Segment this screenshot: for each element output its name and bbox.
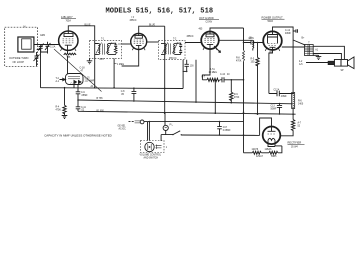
volume control shaft [145,142,154,151]
AC plug [140,120,144,124]
svg-text:52: 52 [298,126,301,128]
svg-text:470K: 470K [236,60,242,62]
T1 trimmer caps [114,43,117,49]
svg-text:C17: C17 [223,127,228,129]
svg-text:SP: SP [341,70,345,72]
svg-text:1 MEG: 1 MEG [117,64,124,66]
V4 plate box [268,35,278,44]
svg-text:CAPACITY IN MMF UNLESS OTHERWI: CAPACITY IN MMF UNLESS OTHERWISE NOTED [44,134,112,138]
svg-text:GE-951: GE-951 [118,125,127,127]
wire T1 bottom column to rail A [113,58,115,87]
svg-text:12B-12K7: 12B-12K7 [61,15,73,19]
svg-text:470K: 470K [234,97,240,99]
svg-text:M: M [24,27,26,29]
svg-text:MODELS 515, 516, 517, 518: MODELS 515, 516, 517, 518 [106,8,214,16]
V2 cathode [136,45,142,49]
V1 grids dashed [63,39,75,43]
heater string [244,152,253,154]
svg-text:BLUE: BLUE [85,24,91,26]
wire V2 top rail down [164,26,166,113]
svg-text:C-11: C-11 [81,107,87,109]
svg-text:1400: 1400 [298,103,304,105]
svg-text:R-6: R-6 [298,100,302,102]
svg-text:CONV: CONV [206,21,213,23]
V3 cathode down to R-7 [202,49,210,80]
wire B+ diagonal to transformer [293,40,305,45]
V5 cathode dashes [268,133,276,135]
wire diode box bottom to rail A [73,85,75,88]
V2 pin stubs [132,47,145,50]
svg-text:1: 1 [166,147,168,149]
svg-text:B1 650: B1 650 [97,110,105,112]
svg-text:A1: A1 [315,49,319,52]
svg-text:C-15: C-15 [85,78,91,80]
svg-text:40MF: 40MF [281,96,287,98]
loop antenna dashed enclosure [5,27,38,66]
heater wire to V5 [268,143,282,153]
resistor R-7 10 MEG horizontal [207,78,220,81]
wire loop to grid [34,44,59,46]
V1 plate [64,34,73,37]
svg-text:C-2A: C-2A [50,46,56,49]
svg-text:R-9: R-9 [234,94,238,96]
V2 plate top wire BLUE [139,26,165,33]
tube V1 12K7 IF amplifier [59,31,78,50]
V3 pin stubs [203,47,217,50]
svg-text:P L: P L [170,125,174,127]
oscillator coil right of V3 [219,39,247,41]
wire cathode column down [67,56,69,74]
resistor R-9 470K vertical [230,80,232,92]
svg-text:GRN: GRN [40,35,45,37]
T1 tuning arrows [96,43,112,54]
svg-text:40: 40 [227,74,230,76]
osc coil winding [253,40,254,48]
trimmer capacitor C1B [46,42,50,52]
svg-text:RECTIFIER: RECTIFIER [288,141,302,145]
diode box (2nd det) below V1 [66,74,84,85]
V3 top wire to B rail column [210,28,244,32]
wire R-7 tap down to rail C [214,80,216,113]
wire loop bottom to rail A [40,50,42,88]
svg-text:R-5: R-5 [251,59,255,61]
svg-text:A-7: A-7 [298,122,302,125]
svg-text:12SA7: 12SA7 [256,155,264,158]
svg-text:A1: A1 [91,85,95,88]
resistor A-7 surge [292,114,294,119]
V3 grids dashed [204,39,215,43]
on-off switch [172,134,173,135]
svg-text:I F: I F [132,17,135,19]
IF transformer T1 dashed box [90,40,122,58]
resistor R-8 470K on bus [243,50,245,61]
wire under T2 [183,70,187,72]
svg-text:.05: .05 [121,94,125,96]
svg-text:C-8: C-8 [121,91,125,93]
V2 grids dashed [134,40,144,44]
rail A (A1 bus) [41,87,184,90]
tube V2 12K7 2nd IF [131,34,147,50]
V2 plate [135,36,142,39]
T2 primary winding [165,43,166,54]
svg-text:150: 150 [251,62,256,64]
svg-text:35 W4: 35 W4 [291,146,298,148]
speaker frame [334,60,341,67]
V3 cathode [207,44,213,49]
svg-text:OUTSIDE TURN: OUTSIDE TURN [9,56,29,60]
V5 filament [268,138,275,140]
V4 cathode [270,47,276,50]
tube V5 rectifier 35W4 [263,127,281,145]
T1 secondary winding [107,44,108,55]
svg-text:50MF: 50MF [271,109,277,111]
rail C (B1 650) [78,111,296,114]
speaker voice coil [328,61,334,64]
wire T2 input from V2 plate [147,41,159,43]
svg-text:C-16: C-16 [71,83,77,85]
resistor R-5 150 cathode bias [257,43,259,58]
ground under R-4 [62,116,68,119]
V1 cathode coil 755 [67,50,69,53]
V3 plate [206,34,214,37]
T2 internal wires [161,43,181,54]
pilot lamp P L [164,113,166,125]
rail B (B 765) [78,100,293,104]
coupling capacitor C-11 to V4 grid [244,41,264,45]
svg-text:B 765: B 765 [97,98,104,100]
capacitor C-10 series [222,77,231,82]
svg-text:C12A: C12A [274,88,280,91]
capacitor C-12 40MF at B+ [293,29,297,33]
svg-text:50A5: 50A5 [268,20,274,23]
svg-text:T-4: T-4 [56,78,60,80]
heater resistor 1 [252,151,261,154]
resistor R-4 470K to ground [64,88,66,106]
svg-text:R-4: R-4 [56,107,60,109]
T1 primary winding [99,44,100,55]
V4 grid lines [268,44,277,46]
T2 trimmer caps [179,43,182,49]
svg-text:C-18: C-18 [80,68,86,70]
T-3 secondary to speaker wires [313,46,344,59]
svg-text:BLUE: BLUE [149,24,155,26]
volume switch contacts [156,145,162,150]
ground stub below T1 [89,58,91,60]
svg-text:.05MF: .05MF [81,95,88,97]
V4 top wire to B+ column [273,27,294,93]
T2 core [169,43,171,54]
IF transformer T2 dashed box [159,40,186,59]
svg-text:100: 100 [190,66,195,68]
svg-text:120 MMF: 120 MMF [85,80,95,82]
V5 plate [268,127,276,132]
AC line stub and label [129,121,135,123]
switch to rectifier plate line [181,134,259,136]
trimmer capacitor C1A [39,45,45,53]
wire T2 box to rail A [182,60,184,89]
AC line to switch wires [144,122,149,141]
svg-text:40MF: 40MF [285,33,291,35]
T1 internal wires [95,43,116,54]
wire T2 secondary to V3 grid [185,42,201,44]
wire C-10 to bus [231,79,243,81]
svg-text:47: 47 [81,70,84,72]
loop antenna outer turn [18,37,34,52]
T1 core [102,44,104,55]
svg-text:OF LOOP: OF LOOP [13,60,25,64]
diode box input arrow [60,78,66,81]
svg-text:OCT & MOD: OCT & MOD [199,16,214,20]
T2 tuning arrows [162,42,178,53]
svg-text:A-1: A-1 [56,80,60,83]
tube V3 oscillator-modulator 12SA7 [201,32,219,50]
svg-text:R-8: R-8 [236,57,240,59]
pilot to switch wire [166,131,173,135]
V1 pin stubs [61,48,77,52]
V4 cathode wire down [269,50,273,94]
svg-text:POWER OUTPUT: POWER OUTPUT [262,15,284,19]
tube V4 power output 50A5 [263,31,282,50]
svg-text:AVC: AVC [100,58,105,61]
svg-text:AC-DC: AC-DC [119,127,127,130]
volume control dashed box [141,141,165,153]
mechanical link diagonal [54,49,102,92]
svg-text:455KC: 455KC [130,20,137,22]
svg-text:B+: B+ [302,38,306,40]
V3 oscillator arrow [214,46,221,53]
svg-text:C13: C13 [271,106,276,108]
svg-text:C-10: C-10 [220,74,226,76]
output transformer T-3 [282,46,305,48]
svg-text:12AT6: 12AT6 [252,148,259,151]
heater resistor 2 [269,151,278,154]
svg-text:455 KC: 455 KC [169,58,177,60]
svg-text:VOLUME CONTROL: VOLUME CONTROL [140,155,162,157]
wire V1 top column to rail A [94,40,96,87]
trimmer capacitor C1 inside loop box [35,52,39,66]
capacitor C-17 line filter [217,122,222,135]
capacitor C-9 column [76,85,81,101]
speaker cone [348,57,355,69]
svg-text:4-2: 4-2 [299,61,303,63]
main vertical bus x243.5 [243,28,245,50]
filter choke R-6 [292,93,295,109]
V1 plate top wire BLUE to T1 [68,26,94,41]
V2 cathode wire [122,50,139,67]
svg-text:705A: 705A [66,19,72,22]
capacitor C-8 between rails [132,88,137,101]
wire trimmers junction [41,52,48,54]
svg-text:465: 465 [199,28,204,30]
T2 secondary winding [174,43,175,54]
T-3 winding block [305,45,314,56]
svg-text:455KC: 455KC [187,36,194,38]
V4 pin stubs [265,48,280,51]
filter capacitor C-13 [277,104,282,114]
label 1 MEG [114,63,116,65]
V1 cathode [65,45,72,50]
svg-text:C-12: C-12 [285,30,291,32]
svg-text:0.05MF: 0.05MF [223,130,231,132]
V5 top wire from switch line [260,118,272,135]
capacitor C-13 100 below T2 [185,60,189,72]
capacitor C-10A between rails [76,100,81,111]
heater wire mid [261,152,269,154]
svg-text:470K: 470K [56,110,62,112]
V1 grid wire [53,44,59,46]
wire T1 secondary to V2 grid [122,43,131,45]
svg-text:AND SWITCH: AND SWITCH [144,157,159,160]
ground below transformer [316,55,322,59]
svg-text:50B5: 50B5 [271,156,277,158]
wire T2 column to rail B [195,60,197,102]
svg-text:C-9: C-9 [81,92,85,94]
loop antenna inner turn [22,39,31,49]
svg-text:12BA6: 12BA6 [265,148,273,151]
svg-text:A-5: A-5 [299,63,303,66]
filter capacitor C-12A horizontal [269,91,293,96]
